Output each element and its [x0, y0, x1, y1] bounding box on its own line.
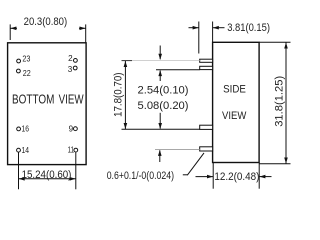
side view package outline [213, 42, 260, 162]
svg-text:16: 16 [22, 125, 30, 134]
svg-text:0.6+0.1/-0(0.024): 0.6+0.1/-0(0.024) [107, 170, 175, 182]
side view pins [200, 59, 213, 151]
svg-text:VIEW: VIEW [222, 110, 247, 122]
dimension 31.8(1.25) right of side view [259, 42, 290, 163]
svg-text:22: 22 [23, 69, 31, 78]
dimension 3.81(0.15) top of side view [189, 22, 225, 54]
pin 22 [17, 69, 21, 73]
pin 14 [17, 148, 21, 152]
svg-text:SIDE: SIDE [223, 84, 246, 96]
pin 23 [17, 59, 21, 63]
svg-text:2.54(0.10): 2.54(0.10) [138, 85, 189, 97]
dimension 2.54(0.10) [159, 46, 161, 60]
pin 11 [74, 148, 78, 152]
svg-text:12.2(0.48): 12.2(0.48) [214, 171, 259, 183]
svg-text:11: 11 [68, 146, 75, 155]
pin 3 [73, 66, 77, 70]
svg-text:BOTTOM: BOTTOM [12, 93, 54, 107]
pin 16 [17, 127, 21, 131]
svg-text:14: 14 [22, 146, 30, 155]
dimension 15.24(0.60) below bottom view [19, 152, 76, 189]
svg-text:VIEW: VIEW [59, 93, 84, 107]
pin 2 [74, 59, 78, 63]
dimension 20.3(0.80) top of bottom view [10, 24, 86, 42]
svg-text:15.24(0.60): 15.24(0.60) [22, 169, 72, 181]
pin extension lines [122, 60, 133, 62]
svg-text:20.3(0.80): 20.3(0.80) [24, 16, 68, 28]
svg-text:5.08(0.20): 5.08(0.20) [138, 100, 189, 112]
svg-text:3.81(0.15): 3.81(0.15) [227, 22, 270, 34]
pin 9 [74, 127, 78, 131]
svg-text:23: 23 [22, 55, 30, 64]
svg-text:3: 3 [68, 65, 73, 74]
svg-text:9: 9 [69, 124, 74, 133]
bottom view package outline [8, 43, 87, 165]
dimension 17.8(0.70) [124, 61, 126, 129]
svg-text:31.8(1.25): 31.8(1.25) [273, 76, 285, 127]
svg-text:17.8(0.70): 17.8(0.70) [113, 72, 125, 117]
svg-text:2: 2 [68, 54, 73, 63]
dimension 12.2(0.48) below side view [196, 163, 272, 189]
